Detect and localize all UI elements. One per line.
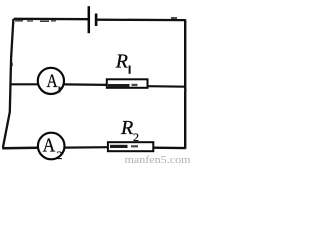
svg-text:R: R — [115, 50, 128, 72]
battery cell B — [89, 6, 96, 33]
wire middle-left — [10, 83, 38, 85]
label R1 — [115, 50, 131, 73]
wire bottom R2 to right — [153, 146, 186, 149]
wire bottom-left — [2, 146, 38, 149]
wire top-left — [14, 19, 89, 22]
wire bottom A2 to R2 — [65, 146, 109, 149]
ammeter A1 — [38, 68, 64, 94]
svg-text:R: R — [120, 117, 133, 139]
ammeter A2 — [38, 133, 65, 162]
svg-text:2: 2 — [57, 148, 63, 162]
wire top-right — [96, 17, 186, 20]
wire middle A1 to R1 — [64, 83, 107, 86]
wire left vertical — [3, 19, 14, 148]
label R2 — [120, 117, 139, 144]
wire right vertical — [184, 20, 187, 149]
resistor R2 — [108, 142, 153, 151]
resistor R1 — [107, 79, 148, 88]
svg-text:A: A — [47, 71, 58, 92]
svg-text:manfen5.com: manfen5.com — [125, 155, 191, 164]
wire middle R1 to right — [148, 85, 187, 88]
svg-text:A: A — [43, 134, 56, 156]
